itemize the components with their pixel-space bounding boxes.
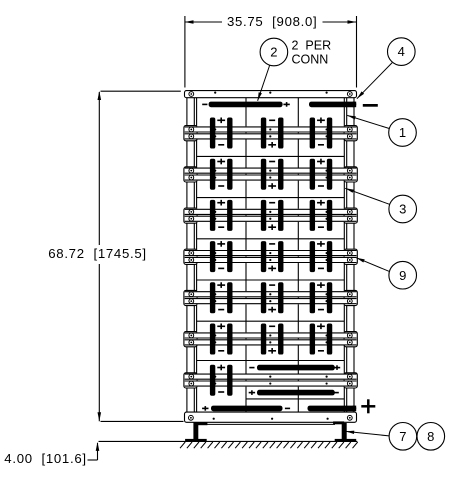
bottom rail bolt right [347,415,352,420]
battery row 2 col 2 polarity labels [269,161,275,163]
battery row 5 col 3 terminal posts [310,282,315,313]
wire: battery row boundary lines [197,155,345,157]
shelf rail 7 right end cap [344,373,357,388]
shelf rail 1 channels [185,126,357,132]
callout balloon 7 leader [346,431,389,436]
svg-text:2: 2 [270,45,277,60]
shelf rail 5 rivet dots [214,293,216,295]
battery row 1 col 1 polarity labels [217,119,225,121]
battery row 1 col 2 terminal posts [261,118,266,149]
top rack rail [185,91,357,98]
battery row 2 col 1 terminal posts [210,159,215,190]
top rail bolt right [347,92,352,97]
battery row 1 col 3 terminal posts [310,118,315,149]
dimension: width 35.75 [908.0] [184,16,186,88]
right leg [342,423,347,439]
battery row 4 col 1 terminal posts [210,241,215,272]
left foot pad [185,439,207,442]
shelf rail 3 channels [185,209,357,215]
battery row 6 col 3 polarity labels [317,325,325,327]
shelf rail 2 bolts [189,168,194,173]
bottom rack rail [185,412,357,422]
shelf rail 1 bolts [189,127,194,132]
shelf rail 2 channels [185,168,357,174]
floor hatching [180,442,185,448]
shelf rail 5 bolts [189,292,194,297]
callout balloon 2 leader [258,65,270,101]
shelf rail 5 left end cap [184,290,197,305]
battery row 4 col 3 polarity labels [317,243,325,245]
svg-text:4.00 [101.6]: 4.00 [101.6] [4,451,86,466]
shelf rail 2 rivet dots [214,170,216,172]
row 7 cable plus label [334,367,340,369]
battery row 3 col 3 terminal posts [310,200,315,231]
wire: rack right inner post lines [343,98,345,412]
battery row 7 col 1 terminal posts [210,365,215,396]
wire: bottom jumper cable right [308,406,357,412]
wire: top jumper cable left (2 per conn) [209,102,283,108]
bottom cable plus label [202,407,208,409]
svg-text:8: 8 [427,429,434,444]
svg-text:68.72 [1745.5]: 68.72 [1745.5] [48,246,147,261]
battery row 2 col 3 terminal posts [310,159,315,190]
svg-text:2 PER: 2 PER [292,39,332,53]
svg-text:35.75 [908.0]: 35.75 [908.0] [227,14,317,29]
callout balloon 3 leader [345,188,389,204]
terminal: system positive symbol [361,405,375,408]
right anchor block [333,421,344,424]
shelf rail 5 channels [185,291,357,297]
callout balloon 9 leader [356,258,389,272]
shelf rail 6 right end cap [344,332,357,347]
callout balloon 4 leader [357,63,392,99]
floor line [99,440,358,442]
svg-text:9: 9 [399,268,406,283]
battery row 2 col 2 terminal posts [261,159,266,190]
wire: bottom jumper cable left [211,406,283,412]
shelf rail 6 left end cap [184,332,197,347]
wire: row 7 jumper cable [257,365,335,371]
battery row 2 col 1 polarity labels [217,161,225,163]
callout balloon 9 [389,261,417,289]
battery row 1 col 1 terminal posts [210,118,215,149]
battery row 7 col 1 polarity labels [217,367,225,369]
battery row 4 col 2 terminal posts [261,241,266,272]
shelf rail 1 left end cap [184,126,197,141]
shelf rail 4 left end cap [184,249,197,264]
shelf rail 4 channels [185,250,357,256]
battery row 5 col 1 polarity labels [217,284,225,286]
callout balloon 4 [388,38,416,66]
svg-text:3: 3 [399,202,406,217]
battery row 5 col 3 polarity labels [317,284,325,286]
shelf rail 6 bolts [189,333,194,338]
callout balloon 2 [260,38,288,66]
battery row 1 col 2 polarity labels [269,119,275,121]
svg-text:CONN: CONN [292,53,329,67]
shelf rail 3 bolts [189,209,194,214]
battery row 5 col 2 terminal posts [261,282,266,313]
terminal: system negative symbol [363,104,378,107]
row 8 cable plus label [249,392,255,394]
wire: rack left inner post lines [193,98,195,412]
shelf rail 7 left end cap [184,373,197,388]
svg-text:1: 1 [399,125,406,140]
wire: top jumper cable right [309,102,356,108]
battery row 3 col 3 polarity labels [317,202,325,204]
battery row 5 col 1 terminal posts [210,282,215,313]
shelf rail 3 rivet dots [214,211,216,213]
shelf rail 2 left end cap [184,167,197,182]
bottom rail bolt left [189,415,194,420]
shelf rail 5 right end cap [344,290,357,305]
battery row 3 col 1 polarity labels [217,202,225,204]
battery row 6 col 2 polarity labels [269,325,275,327]
battery row 6 col 2 terminal posts [261,324,266,355]
battery row 4 col 2 polarity labels [269,243,275,245]
bottom cable minus label [285,407,290,409]
battery row 4 col 1 polarity labels [217,243,225,245]
callout balloon 7 [389,423,417,451]
shelf rail 1 rivet dots [214,128,216,130]
wire: row 8 jumper cable [257,390,335,396]
row 7 cable minus label [249,367,254,369]
row 8 cable minus label [334,392,339,394]
svg-text:7: 7 [399,429,406,444]
shelf rail 6 rivet dots [214,334,216,336]
battery row 3 col 2 polarity labels [269,202,275,204]
battery row 6 col 3 terminal posts [310,324,315,355]
bottom rail lower lip line [200,423,335,425]
battery row 6 col 1 terminal posts [210,324,215,355]
shelf rail 4 right end cap [344,249,357,264]
node: battery column divider 2 [297,98,299,412]
shelf rail 4 rivet dots [214,252,216,254]
battery row 4 col 3 terminal posts [310,241,315,272]
node: battery column divider 1 [245,98,247,412]
dimension: height 68.72 [1745.5] [101,90,181,92]
top cable left minus label [202,103,207,105]
callout balloon 1 [389,119,417,147]
shelf rail 7 rivet dots [214,376,216,378]
battery row 3 col 2 terminal posts [261,200,266,231]
wire: rack outer step contour left [186,98,188,126]
left anchor block [196,422,208,425]
callout balloon 8 [417,423,445,451]
battery row 5 col 2 polarity labels [269,284,275,286]
shelf rail 1 right end cap [344,126,357,141]
shelf rail 3 left end cap [184,208,197,223]
right foot pad [335,439,357,442]
top rail bolt left [189,92,194,97]
callout balloon 3 [389,195,417,223]
shelf rail 2 right end cap [344,167,357,182]
battery row 3 col 1 terminal posts [210,200,215,231]
top cable left plus label [283,103,289,105]
shelf rail 7 bolts [189,374,194,379]
shelf rail 7 channels [185,374,357,380]
battery row 2 col 3 polarity labels [317,161,325,163]
left leg [193,422,198,439]
battery row 1 col 3 polarity labels [317,119,325,121]
bottom rail rivet dots [213,418,215,420]
callout balloon 1 leader [347,115,389,128]
shelf rail 6 channels [185,332,357,338]
wire: rack outer step contour right [353,98,355,126]
shelf rail 4 bolts [189,251,194,256]
svg-text:4: 4 [398,44,405,59]
top rail rivet dots [214,92,216,94]
shelf rail 3 right end cap [344,208,357,223]
battery row 6 col 1 polarity labels [217,325,225,327]
